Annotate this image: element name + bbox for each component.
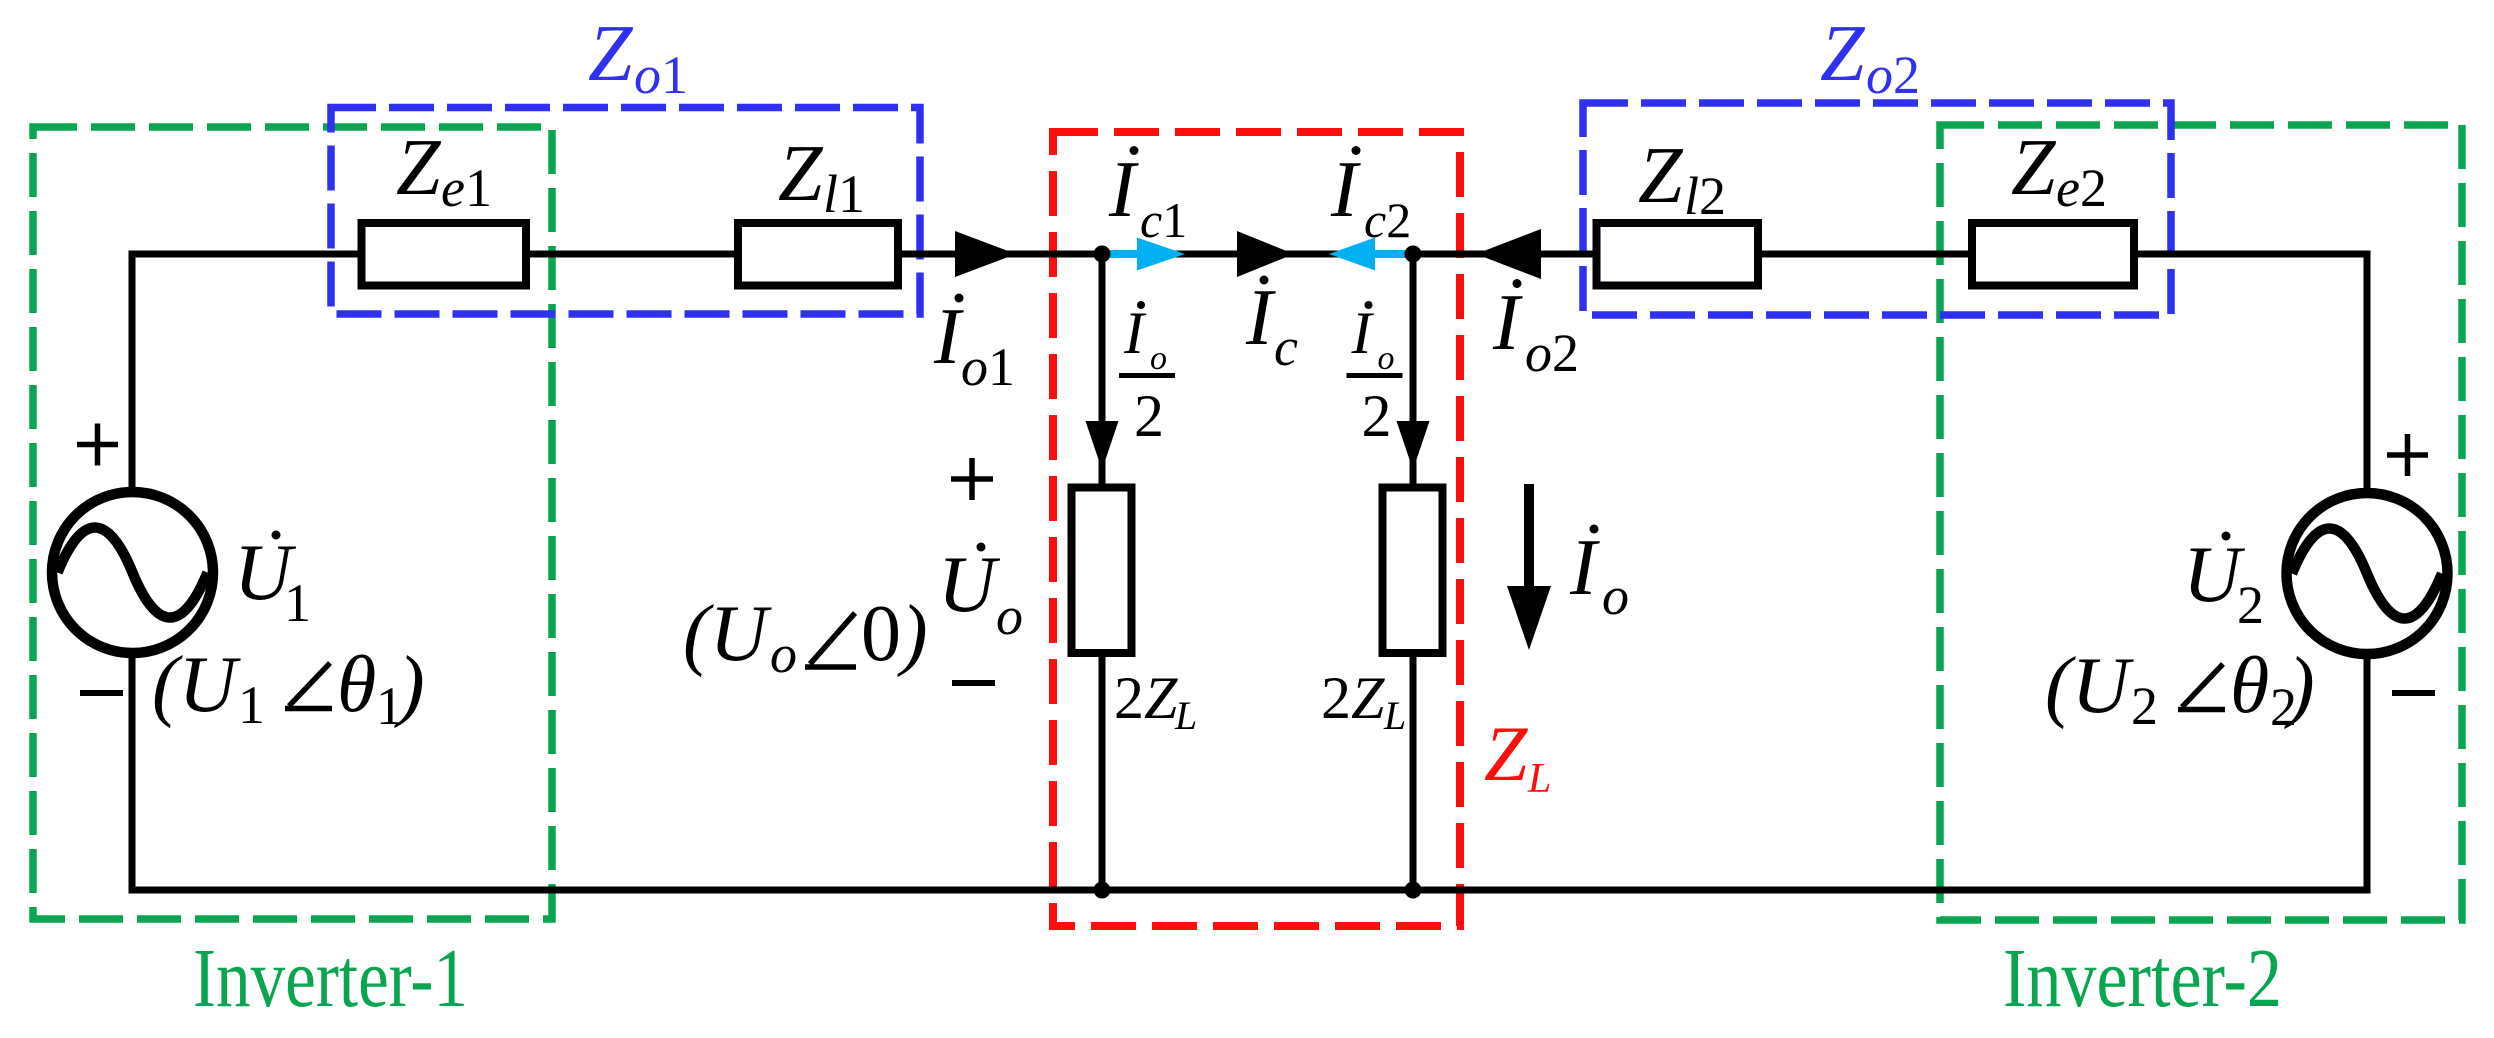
resistor 2ZL left	[1072, 488, 1132, 654]
label Io	[1569, 524, 1629, 626]
label U1 source	[234, 529, 311, 633]
svg-text:Inverter-1: Inverter-1	[193, 932, 468, 1025]
node bottom-left	[1094, 882, 1111, 899]
svg-text:I: I	[1492, 279, 1523, 367]
svg-text:0): 0)	[861, 590, 928, 678]
arrow Io2 (black left)	[1476, 229, 1541, 279]
svg-text:e2: e2	[2056, 158, 2107, 218]
svg-text:θ: θ	[2230, 642, 2269, 730]
svg-text:o: o	[996, 586, 1023, 646]
svg-text:I: I	[1351, 300, 1375, 366]
source U1 (AC circle)	[52, 492, 213, 653]
box Zo2 (blue dashed)	[1583, 103, 2171, 315]
svg-text:2: 2	[2237, 575, 2264, 635]
label Io2	[1492, 279, 1579, 383]
svg-text:o1: o1	[634, 45, 688, 105]
wire left load branch upper	[1099, 254, 1106, 486]
plus sign of U2	[2387, 434, 2428, 476]
wire left load branch lower	[1099, 657, 1106, 890]
wire right load branch lower	[1410, 657, 1417, 890]
label ZL (red)	[1484, 710, 1551, 802]
wire top bus with side drops	[132, 254, 2367, 494]
svg-text:Z: Z	[1638, 132, 1684, 220]
svg-text:o1: o1	[961, 337, 1015, 397]
svg-text:c1: c1	[1140, 192, 1187, 248]
source U2 (AC circle)	[2287, 493, 2448, 654]
arrow Io1 (black right)	[955, 231, 1016, 277]
label Ic	[1245, 274, 1298, 377]
label Io1	[933, 293, 1015, 397]
svg-text:l2: l2	[1684, 166, 1726, 226]
arrow Io/2 down right	[1397, 421, 1430, 470]
svg-text:o2: o2	[1866, 45, 1920, 105]
label plus of Uo	[951, 458, 993, 500]
svg-text:2Z: 2Z	[1321, 665, 1385, 731]
label 2ZL right	[1321, 665, 1406, 738]
label Zo2	[1820, 10, 1920, 105]
svg-text:Inverter-2: Inverter-2	[2003, 932, 2282, 1025]
svg-text:L: L	[1527, 756, 1551, 802]
minus sign of U1	[80, 690, 123, 696]
svg-text:I: I	[1330, 146, 1361, 234]
svg-text:Z: Z	[1484, 710, 1529, 797]
svg-text:): )	[394, 641, 425, 729]
label Ic1	[1108, 146, 1187, 248]
wire right load branch upper	[1410, 254, 1417, 486]
svg-text:Z: Z	[778, 130, 824, 218]
resistor Ze2	[1972, 223, 2134, 286]
svg-text:c: c	[1274, 317, 1298, 377]
resistor 2ZL right	[1383, 488, 1443, 654]
svg-text:1: 1	[238, 675, 265, 735]
arrow Io (big down)	[1507, 484, 1551, 650]
svg-text:e1: e1	[441, 158, 492, 218]
box ZL load (red dashed)	[1053, 132, 1460, 926]
arrow Ic1 (cyan right)	[1102, 238, 1185, 271]
svg-text:θ: θ	[337, 641, 376, 729]
label (Uo angle 0)	[683, 590, 928, 684]
label U2 source	[2183, 531, 2264, 635]
svg-text:I: I	[1123, 300, 1147, 366]
svg-text:o: o	[770, 624, 797, 684]
resistor Ze1	[362, 223, 527, 286]
svg-text:(U: (U	[683, 590, 773, 678]
svg-text:I: I	[1569, 524, 1600, 612]
svg-text:2Z: 2Z	[1114, 665, 1178, 731]
label Zl2	[1638, 132, 1726, 226]
svg-text:o: o	[1150, 340, 1167, 377]
label minus of Uo	[952, 680, 995, 686]
label Ze2	[2011, 124, 2107, 218]
label Uo	[938, 541, 1023, 646]
svg-text:o: o	[1602, 566, 1629, 626]
svg-text:o: o	[1378, 340, 1395, 377]
arrow Ic (black right)	[1237, 231, 1294, 277]
svg-text:): )	[2284, 642, 2315, 730]
svg-text:Z: Z	[1820, 10, 1866, 98]
label Io/2 fraction right	[1347, 300, 1403, 449]
box Inverter-2 (green dashed)	[1940, 125, 2462, 920]
minus sign of U2	[2392, 690, 2435, 696]
label 2ZL left	[1114, 665, 1197, 738]
node top-left	[1094, 246, 1111, 263]
label Ze1	[396, 124, 492, 218]
node top-right	[1405, 246, 1422, 263]
wire bottom bus with side rises	[132, 649, 2367, 890]
label (U2 angle theta2)	[2045, 642, 2315, 737]
svg-text:c2: c2	[1364, 192, 1411, 248]
svg-text:2: 2	[2131, 676, 2158, 736]
svg-text:Z: Z	[396, 124, 442, 212]
box Zo1 (blue dashed)	[331, 108, 920, 315]
label (U1 angle theta1)	[152, 641, 425, 736]
resistor Zl2	[1597, 223, 1759, 286]
label Zl1	[778, 130, 865, 224]
svg-text:2: 2	[1134, 383, 1164, 449]
svg-text:2: 2	[1362, 383, 1392, 449]
svg-text:(U: (U	[152, 641, 242, 729]
node bottom-right	[1405, 882, 1422, 899]
svg-text:L: L	[1383, 693, 1406, 738]
svg-text:U: U	[938, 541, 1001, 629]
svg-text:(U: (U	[2045, 642, 2135, 730]
label Io/2 fraction left	[1119, 300, 1175, 449]
arrow Ic2 (cyan left)	[1329, 238, 1413, 271]
svg-text:Z: Z	[2011, 124, 2057, 212]
label Ic2	[1330, 146, 1411, 248]
resistor Zl1	[738, 223, 898, 286]
svg-text:I: I	[933, 293, 964, 381]
label Zo1	[588, 10, 688, 105]
plus sign of U1	[77, 424, 118, 466]
svg-text:I: I	[1108, 146, 1139, 234]
arrow Io/2 down left	[1086, 421, 1119, 470]
box Inverter-1 (green dashed)	[33, 127, 552, 919]
svg-text:o2: o2	[1525, 323, 1579, 383]
svg-text:Z: Z	[588, 10, 634, 98]
svg-text:l1: l1	[823, 164, 865, 224]
svg-text:I: I	[1245, 274, 1276, 362]
svg-text:1: 1	[284, 573, 311, 633]
svg-text:L: L	[1174, 693, 1197, 738]
